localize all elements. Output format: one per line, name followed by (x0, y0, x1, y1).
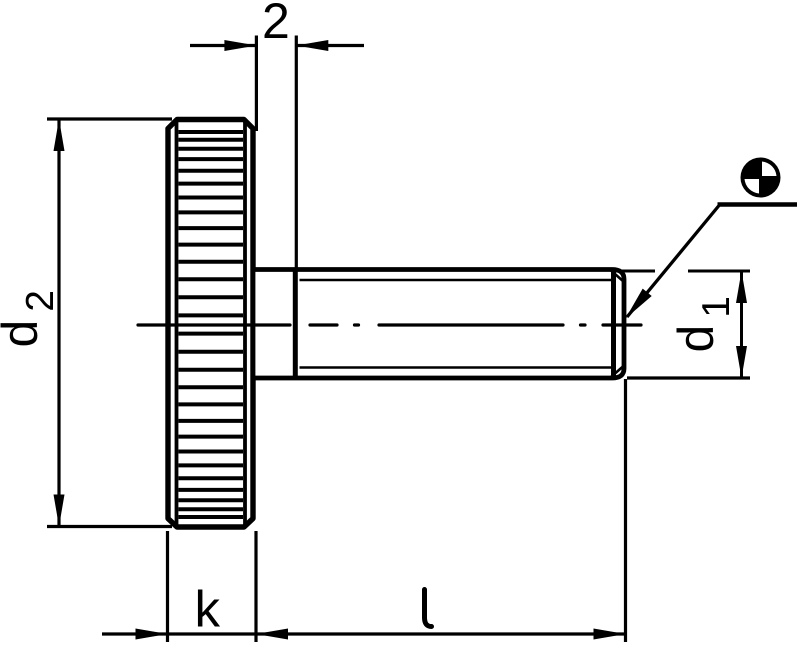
d1 extension line bottom (627, 376, 750, 379)
svg-text:k: k (195, 580, 221, 637)
leader arrowhead (626, 289, 652, 319)
bottom dimension line (102, 632, 626, 635)
k arrowhead pointing left (256, 629, 288, 640)
neck width extension line right (295, 36, 298, 269)
knurled head outer profile (168, 120, 253, 528)
label l (425, 590, 432, 627)
k arrowhead pointing right (136, 629, 168, 640)
screw shank outline (253, 270, 624, 379)
d1 dimension line (740, 271, 743, 378)
neck arrowhead pointing right (224, 40, 256, 51)
chamfer line at thread end (611, 270, 616, 378)
d2 extension line top (47, 117, 172, 120)
neck width extension line left (255, 36, 258, 132)
leader horizontal line (718, 202, 798, 207)
d1 extension line top left segment (612, 270, 655, 273)
chamfer diagonal bottom (611, 366, 624, 377)
thread root line top (300, 279, 613, 281)
thread root line bottom (300, 366, 613, 368)
k extension line left (166, 531, 169, 642)
d1 extension line top right segment (688, 270, 750, 273)
machining surface symbol (741, 158, 781, 198)
d1 arrowhead up (736, 271, 747, 303)
knurl boundary line left (175, 122, 179, 525)
d1 arrowhead down (736, 346, 747, 378)
d2 extension line bottom (47, 525, 172, 528)
neck dimension line right tail (296, 44, 364, 47)
l arrowhead pointing right (594, 629, 626, 640)
svg-text:2: 2 (262, 0, 290, 49)
d2 dimension line (57, 120, 60, 526)
d2 arrowhead up (54, 119, 65, 151)
neck dimension line left tail (190, 44, 256, 47)
thread start line (293, 268, 298, 381)
k extension line right (254, 531, 257, 642)
neck arrowhead pointing left (296, 40, 328, 51)
leader diagonal line (627, 206, 719, 318)
knurl boundary line right (243, 122, 247, 525)
centerline axis dash-dot (138, 323, 641, 326)
knurl hatch lines on head (179, 132, 244, 517)
d2 arrowhead down (54, 495, 65, 527)
chamfer diagonal top (611, 271, 624, 282)
l extension line right (624, 379, 627, 642)
